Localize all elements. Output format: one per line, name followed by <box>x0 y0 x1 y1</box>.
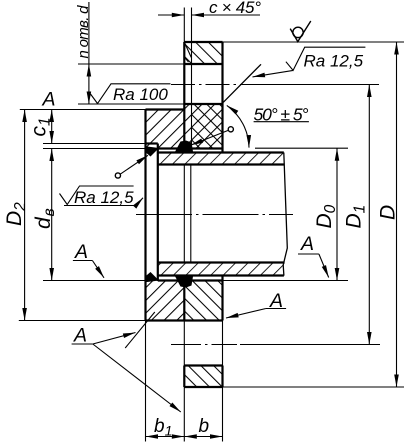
label A right upper with leader <box>298 233 329 278</box>
collar bore edge top <box>146 142 158 144</box>
chamfer diagonals in top rect <box>185 43 192 58</box>
ring right face bottom <box>221 276 223 321</box>
c extension line above ring face <box>183 8 185 43</box>
ring right face through bottom bolt hole (thin) <box>222 321 224 366</box>
svg-text:Ra 12,5: Ra 12,5 <box>304 52 364 71</box>
pipe break line (right end) <box>283 153 287 276</box>
weld bevel diagonal <box>223 64 261 102</box>
bottom rect right edge <box>221 366 223 388</box>
svg-text:50° ± 5°: 50° ± 5° <box>254 105 309 125</box>
weld fill top-right <box>175 141 194 153</box>
50 degree label with shelf <box>254 105 309 125</box>
bottom bolt hole centerline <box>171 344 237 346</box>
dimension d_v <box>32 149 58 281</box>
pipe top outer surface <box>158 151 284 153</box>
flange top face extension line (right, for D) <box>223 41 405 43</box>
bolt hole top edge <box>184 63 222 65</box>
bolt hole top edge extension (left, for n otv. d) <box>78 63 184 65</box>
seat bore top extension (right, for D0) <box>255 147 348 149</box>
weld fill bottom-left <box>145 272 159 282</box>
seat bore edge bottom <box>158 279 223 281</box>
dimension b <box>184 416 222 437</box>
main centerline <box>136 214 293 216</box>
top bolt hole centerline <box>171 84 237 86</box>
50 degree arc <box>227 105 249 147</box>
dimension b1 <box>146 416 185 439</box>
pipe bottom inner surface <box>158 261 285 263</box>
svg-text:Ra 12,5: Ra 12,5 <box>74 188 134 207</box>
hatch collar bottom block <box>146 281 185 321</box>
dimension D2 <box>3 110 29 321</box>
svg-text:D: D <box>377 205 400 220</box>
svg-text:b: b <box>199 416 210 437</box>
svg-text:c × 45°: c × 45° <box>209 0 261 17</box>
hatch ring top cross block <box>191 104 223 149</box>
hatch bottom rect below bolt hole <box>184 366 222 388</box>
svg-text:A: A <box>300 233 314 255</box>
svg-text:Ra 100: Ra 100 <box>113 85 168 104</box>
dimension c1 <box>28 110 54 144</box>
seat bore bottom extension (right, for D0 and A) <box>223 280 349 282</box>
chamfer edge thin vertical line <box>191 8 193 149</box>
bolt hole bottom edge <box>184 103 222 105</box>
flange bottom face <box>184 386 222 388</box>
label A bottom-left with two leaders <box>72 312 181 412</box>
b extension left below <box>183 387 185 442</box>
Ra 12,5 roughness sign left <box>60 186 144 207</box>
top bolt hole centerline extension (right, for D1) <box>240 84 379 86</box>
weld fill top-left <box>145 146 159 156</box>
hatch collar top block <box>146 104 192 149</box>
dimension n otv. d <box>75 2 92 104</box>
hatch ring bottom block <box>184 281 222 321</box>
b extension right below <box>222 387 224 442</box>
pipe top inner surface <box>158 163 285 165</box>
bottom bolt hole centerline extension (right, for D1) <box>240 344 380 346</box>
surface finish check symbol with circle on top face <box>290 21 311 42</box>
svg-text:A: A <box>73 325 87 347</box>
svg-text:n отв. d: n отв. d <box>75 5 92 59</box>
collar bottom face extension (left, for D2) <box>19 320 146 322</box>
label A left middle with leader <box>73 241 104 278</box>
dimension D0 <box>313 148 339 280</box>
hatch pipe bottom wall <box>158 263 284 276</box>
weld fill bottom-right <box>175 275 194 287</box>
ring right face top <box>221 42 223 153</box>
hatch pipe top wall <box>158 153 284 165</box>
weld leader right with circle <box>191 127 234 145</box>
collar bottom face <box>146 319 223 321</box>
b1 extension line left (collar face extended) <box>145 321 147 442</box>
hatch top rect above bolt hole <box>184 42 222 64</box>
pipe end face (left) <box>157 144 159 282</box>
svg-text:A: A <box>74 241 88 263</box>
label A right lower with leader <box>226 290 286 318</box>
pipe bottom outer surface <box>158 274 284 276</box>
collar left face <box>144 110 146 321</box>
flange top face <box>184 41 222 43</box>
bottom rect left edge <box>183 366 185 388</box>
Ra 12,5 roughness sign top right <box>253 47 366 77</box>
dimension D1 <box>343 85 370 345</box>
dimension c x 45 <box>158 0 261 17</box>
collar top face <box>146 108 185 110</box>
seat bore edge top extension (left, for d_v) <box>43 148 146 150</box>
collar top face extension (left, for D2) <box>20 109 146 111</box>
bore thin line pair (ring faces seen through bore) <box>183 165 185 263</box>
dimension D <box>377 42 400 387</box>
bolt hole bottom edge extension (left, for Ra 100) <box>78 103 184 105</box>
ring left face <box>183 42 185 149</box>
flange bottom face extension (right, for D) <box>223 386 405 388</box>
seat bore edge top <box>158 147 223 149</box>
weld leader left with circle <box>115 155 148 178</box>
seat bore bottom extension (left, for d_v and A) <box>43 280 146 282</box>
bottom rect top edge <box>184 364 222 366</box>
ring left face bottom part <box>183 281 185 321</box>
svg-text:A: A <box>42 89 56 111</box>
collar bore edge top extension (left, for c1) <box>43 143 146 145</box>
ring left face through bottom bolt hole (thin) <box>183 321 185 366</box>
Ra 100 roughness sign <box>91 84 171 104</box>
